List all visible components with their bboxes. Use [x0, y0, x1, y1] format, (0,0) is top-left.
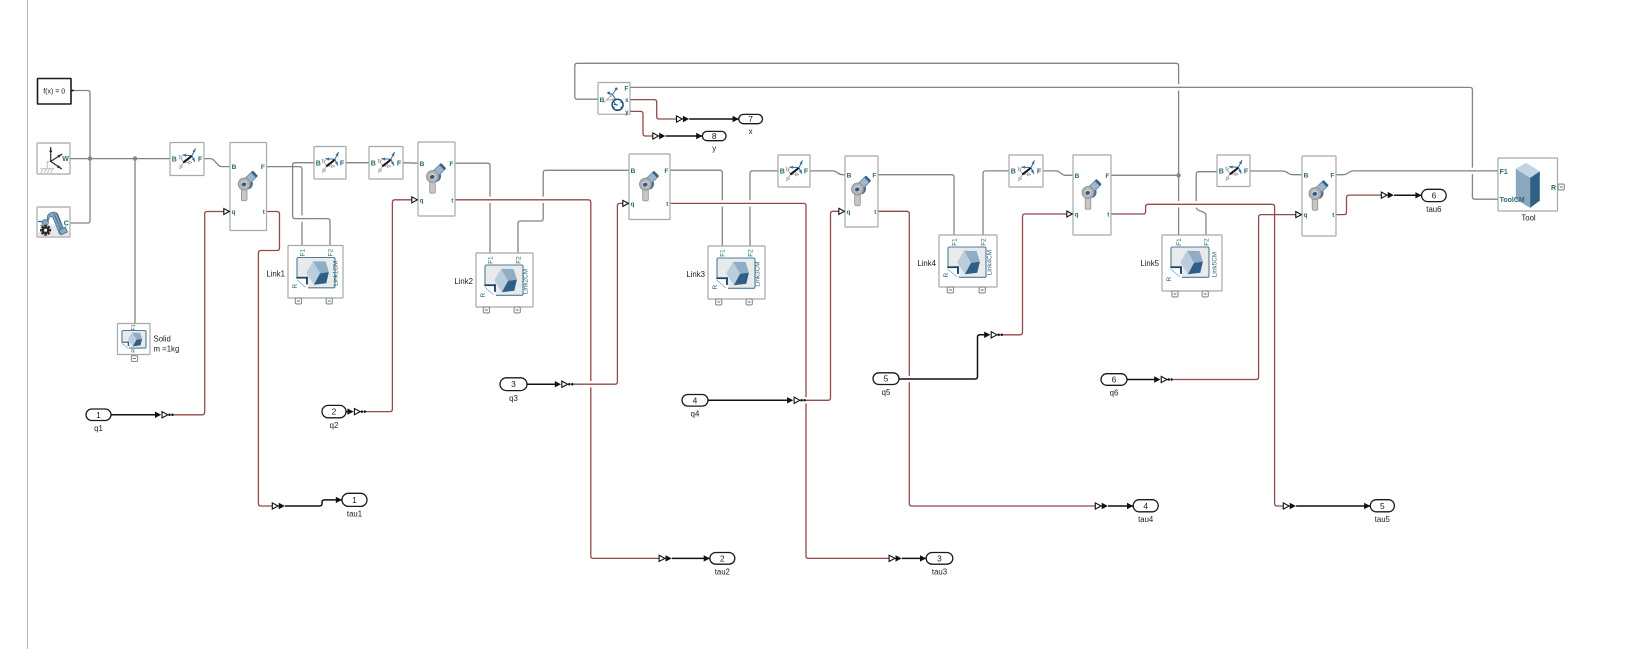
outport 5 (tau5) oval: [1370, 500, 1394, 512]
rigid transform block RT3: [369, 147, 403, 180]
svg-text:q: q: [1304, 212, 1308, 219]
label q3: [509, 394, 518, 403]
wire solver f(x)=0 to mechanism configuration C: [70, 91, 90, 224]
wire RT1 F to joint J1 B: [204, 159, 230, 167]
rigid transform block RT1: [170, 143, 204, 176]
svg-text:F1: F1: [131, 324, 137, 330]
svg-text:F: F: [1037, 169, 1042, 176]
wire world frame to rigid transform RT1: [70, 158, 170, 160]
label Link3: [686, 270, 705, 279]
PS-Simulink converter for tau1: [272, 503, 285, 509]
svg-text:F: F: [340, 160, 345, 167]
PS-Simulink converter for tau4: [1095, 503, 1108, 509]
label q2: [330, 421, 339, 430]
svg-text:B: B: [1075, 173, 1080, 180]
wire q3 converter to joint J3 q: [573, 203, 623, 384]
svg-text:W: W: [62, 156, 69, 163]
outport 7 (x) oval: [739, 114, 763, 124]
link subsystem block Link3: [708, 246, 765, 299]
svg-text:1: 1: [96, 410, 101, 420]
wire crossing gaps on gray lines: [299, 84, 1476, 222]
label tau2: [715, 568, 730, 577]
label tau3: [932, 568, 947, 577]
svg-text:ToolCM: ToolCM: [1500, 197, 1525, 204]
svg-text:Link2: Link2: [454, 277, 473, 286]
svg-text:F2: F2: [980, 238, 987, 246]
wire joint J3 F to Link3 F1: [670, 170, 722, 246]
world frame block: [37, 143, 70, 174]
label q6: [1110, 389, 1119, 398]
wire RT4 F to joint J4 B: [810, 171, 845, 175]
svg-text:tau2: tau2: [715, 568, 730, 577]
label tau1: [347, 510, 362, 519]
Simulink-PS converter for q6: [1154, 376, 1173, 382]
revolute joint block J2: [418, 142, 455, 216]
svg-text:q: q: [420, 197, 424, 204]
wire Link4 F2 to RT5 B: [983, 171, 1009, 236]
outport 3 (tau3) oval: [926, 553, 953, 565]
svg-text:2: 2: [332, 407, 337, 417]
svg-text:F1: F1: [720, 249, 727, 257]
svg-text:B: B: [232, 164, 237, 171]
wire converter to outport tau2: [672, 555, 710, 561]
wire RT6 F to joint J6 B: [1250, 171, 1302, 175]
unconnected port marker below Solid: [131, 356, 137, 362]
label tau5: [1375, 515, 1391, 524]
wire joint J2 F to Link2 F1: [455, 163, 490, 253]
svg-text:q: q: [232, 209, 236, 216]
wire joint J1 t to tau1 converter: [258, 212, 279, 507]
svg-text:m =1kg: m =1kg: [154, 345, 180, 354]
Tool subsystem block: [1498, 158, 1558, 211]
link subsystem block Link1: [288, 246, 343, 299]
label Link2: [454, 277, 473, 286]
wire transform sensor B feedback to Link5 F1: [575, 63, 1179, 235]
label y: [712, 144, 716, 153]
wire q5 converter to joint J5 q: [1003, 214, 1067, 335]
rigid transform block RT6: [1217, 155, 1250, 187]
svg-text:R: R: [1551, 185, 1556, 192]
input arrow at J4 q port: [839, 208, 845, 214]
wire Link2 F2 to joint J3 B: [518, 170, 629, 253]
junction node joint J5 F / sensor / Link5 F1: [1176, 173, 1180, 177]
svg-text:y: y: [712, 144, 716, 153]
svg-text:F: F: [198, 157, 203, 164]
svg-text:F: F: [1244, 168, 1249, 175]
label Tool: [1521, 213, 1536, 222]
svg-text:x: x: [625, 97, 629, 104]
svg-text:B: B: [172, 157, 177, 164]
wire q2 to converter: [346, 411, 348, 413]
svg-text:3: 3: [937, 553, 942, 563]
wire q4 converter to joint J4 q: [805, 211, 838, 400]
svg-text:C: C: [64, 220, 69, 227]
svg-text:F1: F1: [951, 238, 958, 246]
Simulink-PS converter for q2: [347, 408, 366, 414]
svg-text:R: R: [712, 285, 719, 290]
unconnected port marker at Tool R: [1558, 184, 1564, 190]
outport 2 (tau2) oval: [710, 553, 735, 565]
input arrow at J3 q port: [623, 200, 629, 206]
Simulink-PS converter for q3: [555, 381, 574, 387]
svg-text:F2: F2: [747, 249, 754, 257]
svg-text:R: R: [1166, 277, 1173, 282]
wire crossing gaps on red lines: [590, 376, 911, 404]
svg-text:R: R: [943, 273, 950, 278]
svg-text:F2: F2: [327, 248, 334, 256]
wire joint J6 t to tau6 converter: [1336, 195, 1381, 215]
svg-text:6: 6: [1432, 190, 1437, 200]
wire joint J1 F to Link1 F1: [267, 167, 303, 246]
wire joint J2 t to tau2 converter: [455, 200, 659, 559]
svg-text:q1: q1: [94, 424, 103, 433]
unconnected port markers below Link3: [716, 299, 753, 305]
svg-text:F1: F1: [299, 248, 306, 256]
svg-text:B: B: [1219, 168, 1224, 175]
wire q1 to converter: [111, 414, 156, 416]
junction node on world net (solver branch): [88, 156, 92, 160]
wire q1 converter to joint J1 q: [173, 212, 223, 415]
wire joint J3 t to tau3 converter: [670, 203, 889, 558]
wire joint J4 F to Link4 F1: [878, 175, 954, 236]
unconnected port markers below Link5: [1172, 291, 1208, 297]
svg-text:B: B: [316, 160, 321, 167]
wire q6 converter to joint J6 q: [1172, 215, 1295, 380]
wire RT2 F to RT3 B: [346, 162, 369, 164]
svg-text:8: 8: [712, 131, 717, 141]
wire converter to outport tau1: [285, 497, 342, 506]
label tau6: [1426, 205, 1441, 214]
revolute joint block J4: [845, 156, 878, 227]
svg-text:3: 3: [511, 379, 516, 389]
Simulink-PS converter for q4: [787, 397, 806, 403]
svg-text:F1: F1: [1176, 238, 1183, 246]
svg-text:q: q: [847, 209, 851, 216]
revolute joint block J3: [629, 154, 670, 220]
svg-text:Tool: Tool: [1521, 213, 1536, 222]
svg-text:tau3: tau3: [932, 568, 947, 577]
svg-text:F: F: [397, 160, 402, 167]
wire joint J5 t to tau5 converter: [1111, 204, 1283, 506]
outport 6 (tau6) oval: [1422, 189, 1447, 201]
wire joint J4 t to tau4 converter: [878, 211, 1095, 506]
link subsystem block Link5: [1162, 235, 1222, 291]
svg-text:2: 2: [720, 553, 725, 563]
rigid transform block RT2: [314, 147, 346, 180]
wire q2 converter to joint J2 q: [365, 200, 411, 412]
wire converter to outport tau4: [1108, 503, 1133, 509]
svg-text:R: R: [480, 293, 487, 298]
svg-text:Link2CM: Link2CM: [522, 269, 529, 294]
svg-text:Link3: Link3: [686, 270, 705, 279]
wire Link5 F2 to RT6 B: [1196, 172, 1217, 236]
svg-text:B: B: [847, 172, 852, 179]
svg-text:B: B: [371, 160, 376, 167]
wire q5 to converter: [899, 335, 985, 379]
input arrow at J6 q port: [1296, 212, 1302, 218]
link subsystem block Link2: [476, 253, 533, 307]
svg-text:F: F: [1105, 173, 1109, 180]
label q5: [882, 388, 891, 397]
label x: [749, 127, 753, 136]
mechanism configuration block: [37, 207, 70, 237]
svg-text:q: q: [631, 201, 635, 208]
rigid transform block RT4: [778, 155, 810, 187]
PS-Simulink converter for y: [653, 133, 666, 139]
svg-text:5: 5: [1380, 501, 1385, 511]
svg-text:F: F: [1330, 172, 1334, 179]
inport 2 (q2) oval: [322, 405, 346, 417]
label Link5: [1140, 259, 1159, 268]
svg-text:1: 1: [352, 495, 357, 505]
svg-text:B: B: [780, 169, 785, 176]
wire sensor y to converter: [630, 111, 652, 136]
rigid transform block RT5: [1009, 155, 1043, 187]
label tau4: [1138, 515, 1154, 524]
svg-text:R: R: [131, 349, 137, 353]
wire transform sensor F to Tool ToolCM: [630, 87, 1498, 199]
inport 1 (q1) oval: [86, 409, 111, 421]
svg-text:4: 4: [693, 395, 698, 405]
inport 4 (q4) oval: [682, 395, 708, 407]
PS-Simulink converter for x: [677, 116, 690, 122]
solver configuration block f(x)=0: [38, 79, 74, 105]
wire joint J5 F to junction node: [1111, 174, 1179, 176]
label m =1kg: [154, 345, 180, 354]
wire Link3 F2 to RT4 B: [750, 171, 778, 247]
svg-text:q2: q2: [330, 421, 339, 430]
svg-text:F1: F1: [1500, 169, 1508, 176]
Solid block (m = 1kg): [118, 324, 151, 355]
svg-text:Link5: Link5: [1140, 259, 1159, 268]
unconnected port markers below Link1: [295, 298, 332, 304]
wire q3 to converter: [527, 383, 555, 385]
wire world net down to Solid: [134, 159, 136, 324]
svg-text:tau4: tau4: [1138, 515, 1154, 524]
svg-text:Solid: Solid: [154, 335, 171, 344]
svg-text:x: x: [749, 127, 753, 136]
svg-text:tau1: tau1: [347, 510, 362, 519]
svg-text:F2: F2: [1203, 238, 1210, 246]
link subsystem block Link4: [939, 235, 997, 287]
svg-text:f(x) = 0: f(x) = 0: [43, 89, 65, 96]
svg-text:B: B: [631, 168, 636, 175]
PS-Simulink converter for tau3: [889, 555, 902, 561]
wire RT3 F to joint J2 B: [403, 162, 418, 165]
svg-text:q5: q5: [882, 388, 891, 397]
svg-text:F: F: [872, 172, 876, 179]
label q1: [94, 424, 103, 433]
svg-text:F: F: [804, 169, 809, 176]
outport 4 (tau4) oval: [1133, 500, 1158, 512]
transform sensor block: [598, 83, 630, 117]
svg-text:Link3CM: Link3CM: [754, 261, 761, 286]
svg-text:Link1CM: Link1CM: [332, 261, 339, 286]
revolute joint block J6: [1302, 156, 1336, 236]
wire converter to outport x: [689, 116, 739, 122]
svg-text:y: y: [625, 109, 629, 116]
svg-text:F2: F2: [515, 256, 522, 264]
label q4: [691, 409, 700, 418]
junction node on world net (Solid branch): [133, 156, 137, 160]
canvas left border line: [27, 0, 29, 649]
revolute joint block J5: [1073, 155, 1111, 235]
svg-text:q4: q4: [691, 409, 700, 418]
wire RT5 F to joint J5 B: [1043, 171, 1073, 175]
label Link1: [266, 270, 285, 279]
svg-text:tau6: tau6: [1426, 205, 1441, 214]
svg-text:q6: q6: [1110, 389, 1119, 398]
outport 8 (y) oval: [702, 131, 726, 141]
svg-text:B: B: [1011, 169, 1016, 176]
svg-text:q3: q3: [509, 394, 518, 403]
svg-text:B: B: [1304, 172, 1309, 179]
Simulink-PS converter for q5: [984, 332, 1003, 338]
svg-text:5: 5: [884, 374, 889, 384]
svg-text:tau5: tau5: [1375, 515, 1391, 524]
input arrow at J1 q port: [224, 209, 230, 215]
wire converter to outport tau3: [902, 555, 926, 561]
wire q6 to converter: [1127, 379, 1155, 381]
svg-text:4: 4: [1143, 501, 1148, 511]
wire q4 to converter: [708, 399, 788, 401]
svg-text:B: B: [600, 97, 605, 104]
svg-text:7: 7: [748, 114, 753, 124]
svg-text:F: F: [261, 164, 265, 171]
inport 5 (q5) oval: [873, 373, 899, 385]
svg-text:B: B: [420, 161, 425, 168]
Simulink-PS converter for q1: [155, 412, 174, 418]
PS-Simulink converter for tau5: [1283, 503, 1296, 509]
PS-Simulink converter for tau2: [659, 555, 672, 561]
svg-text:F1: F1: [487, 256, 494, 264]
input arrow at J2 q port: [412, 197, 418, 203]
svg-text:F: F: [624, 85, 628, 92]
wire converter to outport tau5: [1296, 503, 1370, 509]
svg-text:q: q: [1075, 212, 1079, 219]
label Solid: [154, 335, 171, 344]
svg-text:Link1: Link1: [266, 270, 285, 279]
svg-text:Link4CM: Link4CM: [986, 250, 993, 275]
PS-Simulink converter for tau6: [1381, 192, 1394, 198]
unconnected port markers below Link4: [947, 287, 985, 293]
wire sensor x to converter: [630, 100, 676, 119]
inport 6 (q6) oval: [1101, 374, 1127, 386]
svg-text:R: R: [292, 284, 299, 289]
unconnected port markers below Link2: [483, 307, 520, 313]
wire Link1 F2 to RT2 B: [293, 163, 330, 246]
revolute joint block J1: [230, 143, 267, 231]
inport 3 (q3) oval: [500, 378, 527, 391]
svg-text:Link4: Link4: [917, 259, 936, 268]
svg-text:F: F: [664, 168, 668, 175]
outport 1 (tau1) oval: [342, 493, 367, 506]
svg-text:F: F: [449, 161, 453, 168]
wire converter to outport tau6: [1394, 192, 1422, 198]
input arrow at J5 q port: [1067, 211, 1073, 217]
label Link4: [917, 259, 936, 268]
svg-text:6: 6: [1112, 375, 1117, 385]
wire converter to outport y: [666, 133, 703, 139]
wire joint J6 F to Tool F1: [1336, 171, 1498, 175]
svg-text:Link5CM: Link5CM: [1211, 252, 1218, 277]
